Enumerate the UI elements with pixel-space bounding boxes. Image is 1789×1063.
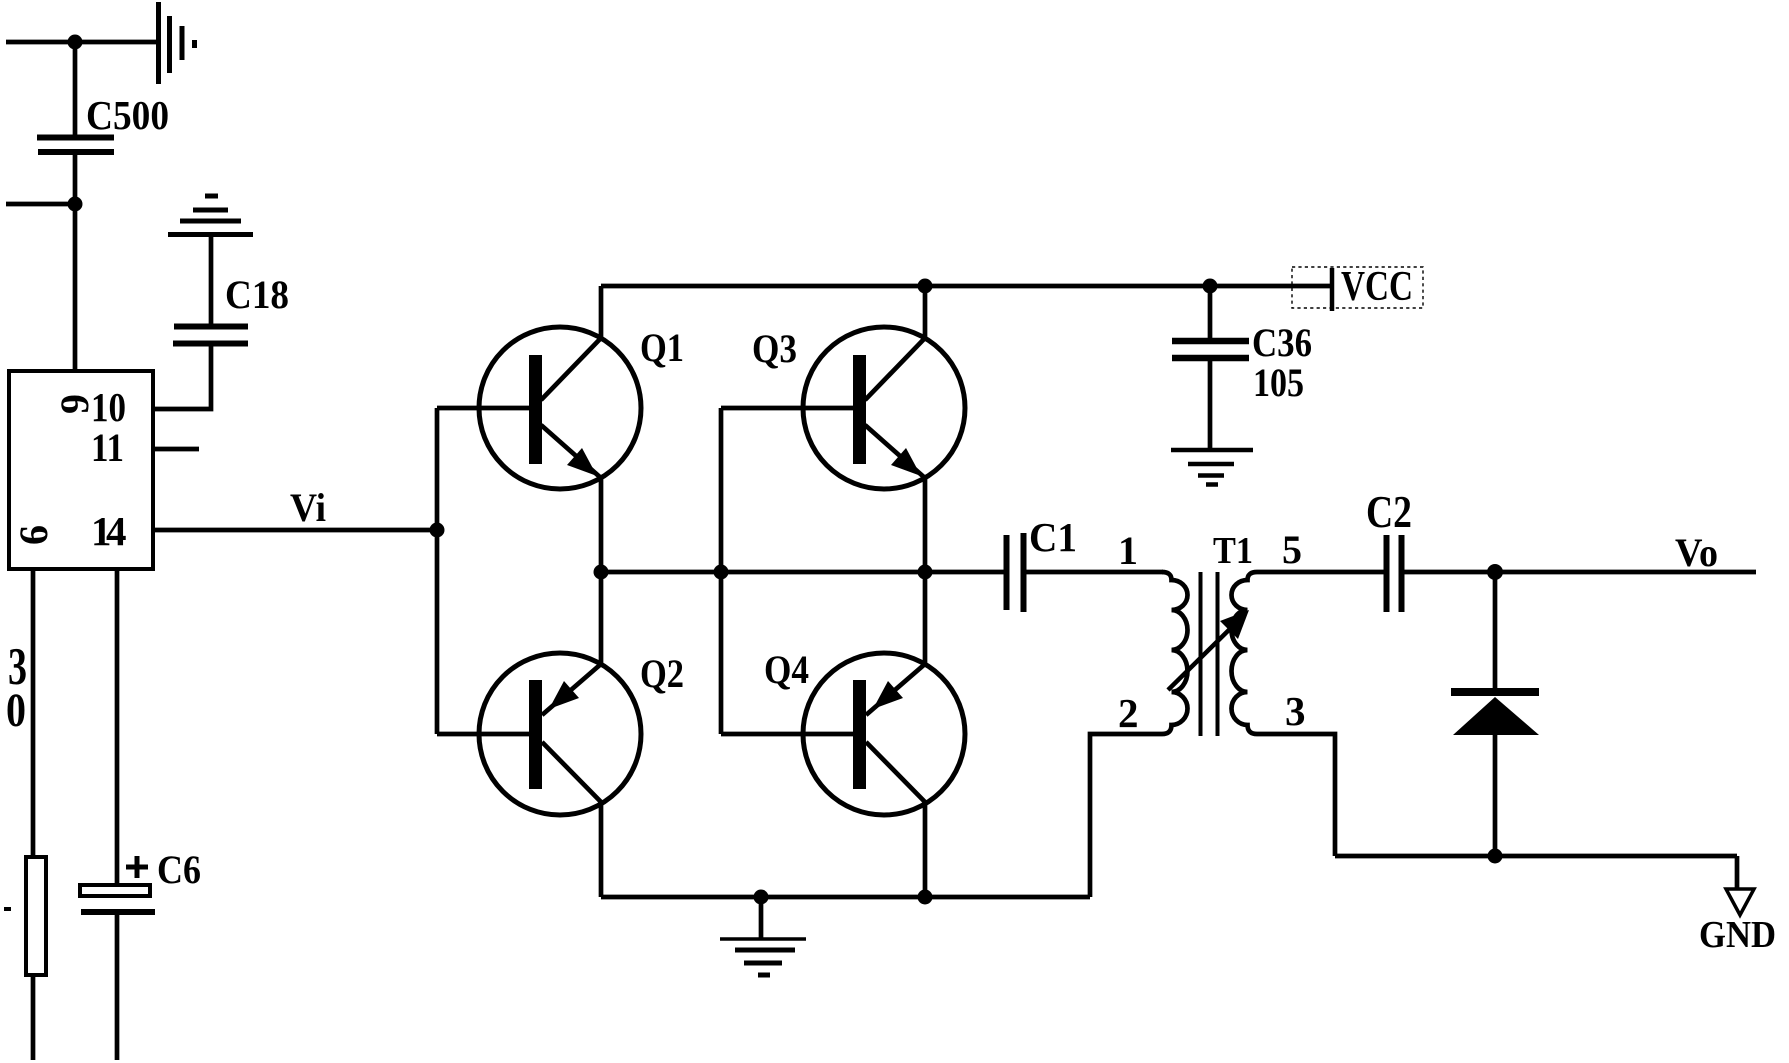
node junction mid rail left [594,565,609,580]
svg-text:105: 105 [1253,360,1304,405]
wire C36 to ground [1208,361,1213,449]
wire diode to bottom rail [1493,735,1498,856]
ground below C36 [1171,450,1253,485]
power VCC symbol (dashed box, bar, label) [1292,267,1423,311]
svg-text:11: 11 [91,425,124,470]
ground GND arrow symbol [1726,889,1754,915]
svg-text:C6: C6 [157,847,201,892]
svg-text:Q1: Q1 [640,325,684,370]
wire below resistor [31,977,36,1060]
ground below bottom rail [720,897,806,975]
wire C500 to IC box [73,155,78,369]
wire mid rail to C1 [601,570,1006,575]
transistor Q4 [721,653,965,815]
transformer T1 [1162,572,1257,736]
wire second pin down [115,569,120,883]
svg-text:C2: C2 [1366,486,1412,537]
node junction bottom rail Q4 [918,890,933,905]
node junction mid rail base column [714,565,729,580]
wire T1 pin 5 to C2 [1257,570,1387,575]
pin 11 stub wire [155,447,199,452]
diode D1 [1451,692,1539,735]
adjustable core arrow [1168,621,1238,690]
wire VCC top rail [601,284,1332,289]
svg-text:C500: C500 [86,92,169,138]
wire pin 6 down [31,569,36,855]
wire Q3/Q4 base vertical [719,408,724,734]
transistor Q1 [437,327,641,489]
svg-text:3: 3 [1285,688,1306,734]
node junction Vo [1487,564,1503,580]
wire C2 to Vo [1401,570,1756,575]
ground rotated right of top-left wire [159,2,195,84]
wire ground to C18 [209,237,214,324]
svg-text:GND: GND [1699,914,1776,956]
primary winding [1162,572,1188,734]
node junction left [68,197,83,212]
wire Q1 emitter / Q2 emitter column [599,478,604,664]
capacitor C2 [1387,535,1402,612]
node junction top rail at C36 [1203,279,1218,294]
svg-text:Q3: Q3 [752,326,797,371]
svg-text:10: 10 [91,384,126,430]
svg-text:1: 1 [1118,528,1138,573]
svg-text:VCC: VCC [1341,264,1413,310]
wire Q3 collector riser [923,286,928,338]
svg-text:C18: C18 [225,272,289,317]
wire to GND symbol [1735,856,1740,889]
wire Vo junction down to diode [1493,572,1498,692]
wire Q1/Q2 base vertical [435,408,440,734]
wire bottom rail [601,895,1090,900]
svg-text:4: 4 [106,508,127,554]
wire Q1 collector riser [599,286,604,338]
svg-text:2: 2 [1118,690,1139,736]
node junction mid rail right [918,565,933,580]
plus sign of C6 [126,856,148,878]
svg-text:T1: T1 [1213,530,1253,572]
svg-text:Vi: Vi [290,485,326,530]
wire below C6 [115,915,120,1060]
wire from junction down to C500 [73,42,78,135]
transistor Q3 [721,327,965,489]
node junction diode bottom [1488,849,1503,864]
wire Vi from pin 14 [155,528,437,533]
capacitor C500 [37,138,114,153]
wire T1 pin 3 down [1257,734,1335,856]
svg-text:Q2: Q2 [640,651,684,696]
core lines [1199,572,1203,736]
small dot mark left edge [4,907,11,911]
wire top-left horizontal [6,40,157,45]
node junction top rail at Q3 [918,279,933,294]
wire Q3 emitter / Q4 emitter column [923,478,928,664]
secondary winding [1232,572,1258,734]
wire T1 pin 2 to bottom rail [1090,734,1162,897]
svg-text:6: 6 [11,525,56,545]
capacitor C18 [173,327,248,344]
transistor Q2 [437,653,641,815]
svg-text:5: 5 [1282,527,1302,572]
node junction Vi [430,523,445,538]
wire VCC rail to C36 [1208,286,1213,338]
node junction top-left [68,35,83,50]
ground inverted above C18 [168,196,253,235]
capacitor C36 [1172,341,1249,358]
IC U1 box [9,371,153,569]
wire C1 to T1 pin 1 [1024,570,1164,575]
svg-text:C1: C1 [1029,514,1077,560]
wire Q4 collector down [923,802,928,897]
wire C18 to pin 10 [155,346,211,409]
wire Q2 collector down [599,802,604,897]
svg-text:0: 0 [6,684,26,737]
svg-text:C36: C36 [1252,320,1312,365]
capacitor C6 (polarized) [80,885,150,896]
node junction bottom rail ground tap [754,890,769,905]
capacitor C1 [1007,533,1024,612]
svg-text:Q4: Q4 [764,647,809,692]
wire left horizontal [6,202,75,207]
svg-text:Vo: Vo [1675,530,1718,575]
resistor R (bottom left) [26,857,46,975]
wire secondary bottom rail [1335,854,1737,859]
